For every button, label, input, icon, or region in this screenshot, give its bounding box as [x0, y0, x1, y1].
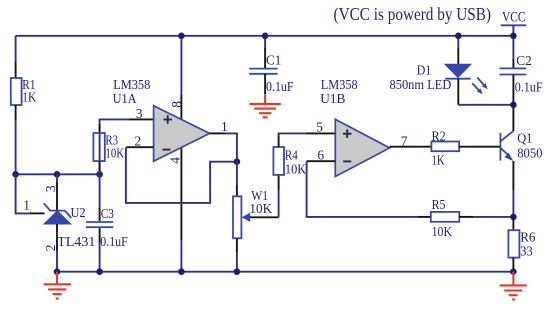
junction dot [510, 102, 517, 109]
wire Q1 collector [512, 105, 514, 131]
capacitor C1 [249, 52, 294, 94]
wire R6 bottom [512, 258, 514, 272]
resistor R2 [431, 128, 459, 167]
junction dot [262, 33, 269, 40]
op-amp U1A [113, 77, 210, 161]
capacitor C3 [86, 206, 128, 249]
svg-text:2: 2 [134, 133, 141, 148]
svg-text:C1: C1 [266, 52, 281, 67]
junction dot [234, 268, 241, 275]
svg-text:1K: 1K [22, 90, 36, 105]
wire R1 top [15, 36, 17, 78]
ground left [44, 272, 71, 299]
svg-text:3: 3 [43, 185, 58, 192]
junction dot [455, 33, 462, 40]
svg-text:1: 1 [221, 119, 228, 134]
svg-text:4: 4 [168, 157, 183, 164]
wire R3 bottom [99, 161, 101, 171]
resistor R1 [11, 77, 37, 105]
wire C1 bottom [264, 74, 266, 95]
wire C2 bottom [512, 75, 514, 105]
resistor R3 [93, 133, 124, 162]
transistor Q1 [500, 130, 542, 161]
wire U2 anode [56, 224, 58, 272]
svg-text:R5: R5 [432, 197, 446, 212]
wire U1B output pin7 [390, 146, 432, 148]
junction dot [54, 171, 61, 178]
wire R2 to Q1 base [459, 146, 500, 148]
svg-text:8: 8 [169, 101, 184, 108]
wire U1A pin2 [126, 146, 153, 148]
svg-text:1: 1 [23, 198, 30, 213]
wire U1B pin6 [307, 160, 336, 162]
svg-text:U1A: U1A [113, 91, 137, 106]
wire R5 right [459, 216, 513, 218]
svg-text:10K: 10K [105, 146, 124, 161]
svg-text:0.1uF: 0.1uF [100, 234, 128, 249]
svg-text:1K: 1K [432, 152, 445, 167]
svg-text:R6: R6 [520, 230, 536, 245]
svg-text:U1B: U1B [320, 91, 345, 106]
junction dot [178, 33, 185, 40]
resistor R4 [273, 147, 306, 177]
svg-text:VCC: VCC [502, 10, 526, 26]
VCC power port [501, 10, 527, 36]
wire U2 cathode [56, 174, 58, 210]
svg-text:850nm LED: 850nm LED [390, 77, 452, 92]
svg-text:(VCC is powerd by USB): (VCC is powerd by USB) [334, 4, 492, 25]
svg-text:10K: 10K [249, 201, 272, 216]
op-amp U1B [320, 77, 389, 176]
svg-text:R2: R2 [432, 128, 446, 143]
svg-text:0.1uF: 0.1uF [515, 79, 543, 94]
wire bottom bus [57, 271, 513, 273]
junction dot [96, 171, 103, 178]
junction dot [12, 171, 19, 178]
shunt regulator U2 TL431 [44, 203, 96, 249]
wire U1A output pin1 [210, 133, 237, 161]
wire R6 top [512, 217, 514, 230]
svg-text:R4: R4 [285, 147, 298, 162]
wire R3 top / U1A pin3 [100, 119, 154, 174]
wire D1 cathode [458, 79, 513, 105]
wire feedback loop U1A [126, 147, 237, 203]
wire W1 top [236, 162, 238, 197]
svg-text:10K: 10K [285, 162, 307, 177]
svg-text:33: 33 [520, 243, 533, 258]
wire C2 top [512, 36, 514, 69]
svg-text:10K: 10K [432, 224, 453, 239]
wire U1A power pins 8 and 4 [180, 36, 182, 272]
svg-text:0.1uF: 0.1uF [266, 79, 294, 94]
wire W1 bottom [236, 238, 238, 271]
svg-text:C2: C2 [516, 53, 532, 68]
wire top bus [16, 35, 514, 37]
junction dot [96, 268, 103, 275]
svg-text:D1: D1 [417, 63, 432, 78]
ground near C1 [250, 95, 281, 117]
wire pin6 to R5 [307, 161, 431, 217]
svg-text:U2: U2 [71, 205, 86, 220]
wire U2 pin1 [16, 174, 45, 213]
svg-text:C3: C3 [101, 206, 115, 221]
wire W1 wiper to R4 [250, 175, 279, 217]
ground right [500, 272, 527, 300]
resistor R6 [508, 230, 535, 259]
junction dot [510, 33, 517, 40]
svg-text:2: 2 [43, 245, 58, 252]
junction dot [510, 214, 517, 221]
junction dot [234, 158, 241, 165]
svg-text:3: 3 [136, 106, 143, 121]
capacitor C2 [500, 53, 544, 94]
wire R1 bottom [15, 105, 17, 174]
junction dot [54, 268, 61, 275]
potentiometer W1 [233, 188, 272, 238]
junction dot [178, 268, 185, 275]
wire R4 top / U1B pin5 [279, 133, 336, 147]
wire C1 top [264, 36, 266, 69]
wire Q1 emitter [512, 161, 514, 217]
wire C3 top [99, 174, 101, 221]
resistor R5 [431, 197, 460, 239]
wire D1 anode [457, 36, 459, 64]
svg-text:8050: 8050 [517, 146, 543, 161]
svg-text:5: 5 [316, 120, 323, 135]
wire C3 bottom [99, 228, 101, 272]
svg-text:TL431: TL431 [57, 234, 95, 249]
junction dot [510, 268, 517, 275]
wire reference bus [16, 173, 100, 175]
svg-text:Q1: Q1 [517, 130, 532, 145]
LED D1 [390, 63, 488, 95]
